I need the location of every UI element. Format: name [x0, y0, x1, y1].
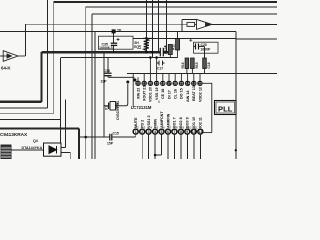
svg-text:6: 6 [163, 125, 165, 129]
wire: thick vertical x=79 [78, 129, 80, 159]
svg-text:2: 2 [137, 125, 139, 129]
wire: thick signal path y=52.2 right part [163, 51, 168, 53]
svg-text:R16: R16 [181, 62, 185, 68]
svg-text:20: 20 [149, 82, 153, 86]
svg-text:IO2 11: IO2 11 [199, 117, 203, 128]
svg-text:9: 9 [186, 130, 188, 134]
svg-text:PLL: PLL [218, 105, 233, 114]
svg-text:CL 16: CL 16 [174, 89, 178, 99]
wire: long horizontal net y=73.4 [127, 72, 277, 74]
capacitor C15 [110, 134, 112, 141]
crystal X1 [104, 84, 128, 110]
svg-text:DI 17: DI 17 [167, 90, 171, 99]
svg-text:7: 7 [173, 130, 175, 134]
svg-text:18: 18 [161, 82, 165, 86]
svg-text:12: 12 [198, 82, 202, 86]
svg-text:L6: L6 [138, 45, 142, 49]
svg-text:22: 22 [136, 82, 140, 86]
svg-text:XIN 22: XIN 22 [136, 88, 140, 99]
svg-text:15: 15 [180, 82, 184, 86]
wire: thick signal path y=52.2 [42, 51, 161, 53]
IC U1 LC72131M top pin row [135, 81, 202, 86]
junction blob near pin 1 [133, 78, 136, 81]
svg-text:C17: C17 [157, 67, 163, 71]
svg-text:4: 4 [154, 130, 156, 134]
wire: horizontal from V1 bend to left edge [0, 107, 48, 109]
svg-text:DO 15: DO 15 [180, 88, 184, 99]
wire: C15 horizontal y=137.1 left part [79, 136, 109, 138]
wire: horizontal net y=119.5 to left edge [0, 119, 60, 121]
svg-text:X1: X1 [105, 106, 109, 110]
wire: long horizontal net y=31.3 [0, 31, 236, 33]
svg-text:DTA144YKA: DTA144YKA [22, 146, 43, 150]
transistor Q4 [44, 143, 62, 156]
svg-text:17: 17 [167, 82, 171, 86]
resistor R13 [168, 45, 172, 58]
svg-text:23P: 23P [101, 80, 108, 84]
junction at 146,52 [145, 51, 148, 54]
inductor L6 [143, 38, 152, 50]
wire: horizontal from V2 bend to left edge [0, 113, 54, 115]
wire: pin1 drop to C15 net [135, 134, 137, 137]
IC U1 top pin names (rotated) [136, 86, 202, 102]
wire: horizontal net y=6.8 [86, 6, 277, 8]
wire: amp1 output vertical riser [24, 24, 26, 56]
svg-text:BEAT 13: BEAT 13 [192, 86, 196, 101]
wire: thick horizontal y=128.6 [0, 128, 79, 130]
wire: net y=38.8 right of rail [236, 38, 277, 40]
resistor network RA1 (bottom left) [1, 145, 11, 159]
svg-text:5: 5 [161, 130, 163, 134]
svg-text:9: 9 [182, 125, 184, 129]
op-amp triangle A2 [197, 19, 212, 29]
wire: vertical bus V5 [94, 31, 96, 159]
wire: top-right pin to right rail [203, 83, 212, 132]
svg-text:C15: C15 [113, 132, 119, 136]
junction at 86,137 [84, 136, 87, 139]
capacitor C18 [203, 58, 207, 69]
svg-text:R12: R12 [164, 48, 168, 54]
resistor R15 [191, 58, 195, 69]
svg-text:VDD1 20: VDD1 20 [149, 87, 153, 102]
wire: C15 horizontal y=137.1 right part [112, 136, 135, 138]
wire: vertical bus x=65.5 [65, 100, 67, 148]
svg-text:13: 13 [192, 82, 196, 86]
junction at 156,57 [155, 56, 158, 59]
svg-text:8: 8 [176, 125, 178, 129]
svg-text:XOUT 21: XOUT 21 [143, 86, 147, 101]
svg-text:2: 2 [141, 130, 143, 134]
wire: IC left edge x=133.2 [132, 73, 134, 107]
box around C20 [194, 42, 219, 53]
svg-text:6: 6 [167, 130, 169, 134]
svg-text:10: 10 [192, 130, 196, 134]
wire: vertical drop x=152.3 from top [151, 0, 153, 58]
junction dots [84, 37, 237, 156]
svg-text:VSS 19: VSS 19 [155, 87, 159, 100]
wire: top horizontal net y=2 [54, 1, 277, 3]
wire: net y=38.5 from C35 box to R14 [133, 38, 178, 40]
svg-text:1000/6.3: 1000/6.3 [99, 46, 113, 50]
svg-text:C36: C36 [104, 69, 111, 73]
wire: vertical drop x=158.4 from top [157, 0, 159, 52]
svg-text:TP: TP [117, 29, 122, 33]
svg-text:AIN 14: AIN 14 [186, 90, 190, 102]
svg-text:VDD2 12: VDD2 12 [198, 87, 202, 102]
wire: thick vertical x=41.5 [40, 52, 42, 102]
wire: Q4 collector to bus [61, 147, 66, 149]
svg-text:5: 5 [157, 125, 159, 129]
IC U1 bottom pin digits [135, 130, 203, 134]
wire: vertical drop x=146.3 from top [145, 0, 147, 52]
svg-text:64-K: 64-K [1, 66, 11, 71]
test point TP [112, 29, 116, 33]
wire: nested bend x=60.3 [59, 58, 61, 143]
IC U1 top pin stubs [138, 58, 212, 133]
resistor R14 [176, 39, 180, 58]
svg-text:LC72131M: LC72131M [131, 105, 152, 110]
wire: vertical x=103.8 [103, 52, 105, 137]
wire: amp2 box top [182, 19, 197, 21]
amplifier A1 (left buffer) [0, 51, 25, 62]
wire: vertical drop x=166.4 from top [165, 0, 167, 52]
wire: horizontal net y=13.9 [92, 13, 277, 15]
svg-text:3: 3 [148, 130, 150, 134]
wire: vertical drop to PLL area [235, 32, 237, 160]
svg-text:1000P: 1000P [201, 47, 212, 51]
svg-text:16: 16 [173, 82, 177, 86]
wire: link x=177.6 [177, 32, 179, 39]
IC U1 bottom pin names (rotated) [134, 111, 203, 128]
svg-text:14: 14 [186, 82, 190, 86]
capacitor C35 block [98, 36, 133, 49]
svg-text:4: 4 [150, 125, 152, 129]
svg-text:R15: R15 [195, 62, 199, 68]
wire: vertical bus V1 from top [47, 0, 49, 108]
wire: amp2 input net y=24.6 [25, 23, 187, 25]
junction at 236,150 [235, 149, 237, 151]
capacitor C20 [189, 39, 204, 58]
svg-text:CVBCR3.581: CVBCR3.581 [116, 100, 120, 120]
capacitor C35 symbol [111, 31, 120, 52]
wire: vertical bus V2 [53, 2, 55, 114]
svg-text:Q4: Q4 [33, 139, 38, 143]
svg-text:5: 5 [158, 100, 160, 104]
svg-text:15P: 15P [107, 142, 114, 146]
resistor R in amp2 input [187, 22, 195, 26]
IC U1 bottom pin row [133, 129, 203, 134]
svg-text:1: 1 [135, 130, 137, 134]
amplifier A2 (right) with series resistor [187, 19, 212, 29]
wire: vertical bus V3 [85, 7, 87, 159]
junction at 150,57 [149, 56, 152, 59]
junction at 155,155 [154, 154, 157, 157]
wire: Q4 base wire [8, 149, 44, 151]
resistor R16 [185, 58, 189, 69]
PLL block label [215, 101, 237, 115]
svg-text:21: 21 [142, 82, 146, 86]
wire: Q4 emitter wire [61, 153, 70, 160]
svg-text:8: 8 [180, 130, 182, 134]
svg-text:11: 11 [198, 130, 202, 134]
capacitor C17 small [157, 61, 165, 66]
wire stubs to y=72.8 [187, 69, 205, 74]
svg-text:C18: C18 [207, 62, 211, 68]
svg-text:3: 3 [144, 125, 146, 129]
wire: amp2 box left edge [181, 20, 183, 32]
wire: amp2 output net y=24.4 [212, 23, 277, 25]
IC U1 bottom pin wires [142, 134, 200, 159]
wire: horizontal net y=57.5 [60, 57, 177, 59]
svg-text:C9413KRAX: C9413KRAX [0, 132, 28, 137]
svg-text:19: 19 [155, 82, 159, 86]
junction at 152,52 [151, 51, 154, 54]
wire: thick horizontal y=101.8 [0, 101, 42, 103]
IC U1 top pin numbers [136, 82, 202, 86]
svg-text:CE 18: CE 18 [161, 89, 165, 99]
wire: vertical bus V4 [91, 14, 93, 159]
svg-text:7: 7 [169, 125, 171, 129]
junction at 146,38 [145, 37, 148, 40]
capacitor C16 (on thick path) [160, 45, 166, 56]
IC U1 bottom pin numbers [137, 125, 198, 129]
